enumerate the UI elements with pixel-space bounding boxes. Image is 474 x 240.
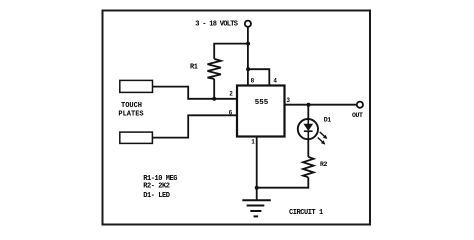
wire pin 3 to OUT — [285, 104, 360, 106]
wire pin 1 down — [256, 137, 258, 200]
LED emission arrow 2 — [318, 138, 326, 145]
touch plate (bottom) — [120, 132, 153, 143]
node junction at D1 branch — [307, 103, 311, 107]
wire D1 to R2 — [307, 139, 309, 157]
node junction pin1/R2/ground — [255, 186, 259, 190]
OUT terminal — [357, 102, 363, 108]
svg-text:R2: R2 — [320, 161, 328, 168]
wire top plate to pin 2 — [153, 87, 238, 99]
ground — [242, 200, 270, 216]
resistor R2 — [303, 157, 314, 177]
node junction at R1 branch — [246, 42, 250, 46]
wire R2 bottom to ground net — [257, 177, 309, 187]
svg-text:555: 555 — [255, 99, 269, 107]
svg-text:D1: D1 — [324, 117, 332, 124]
resistor R1 — [208, 59, 221, 79]
svg-text:D1- LED: D1- LED — [143, 192, 170, 200]
wire branch to R1 top — [214, 44, 248, 59]
svg-text:PLATES: PLATES — [118, 110, 143, 118]
LED emission arrow 1 — [320, 132, 328, 139]
svg-text:OUT: OUT — [352, 112, 363, 119]
node junction R1/pin2 — [212, 97, 216, 101]
touch plate (top) — [120, 80, 153, 92]
svg-text:CIRCUIT 1: CIRCUIT 1 — [289, 209, 323, 217]
svg-text:3 - 18 VOLTS: 3 - 18 VOLTS — [195, 21, 238, 29]
diode D1 LED — [298, 119, 318, 139]
svg-text:R1: R1 — [190, 64, 198, 72]
wire R1 bottom to pin2 net — [213, 79, 215, 99]
schematic border frame (decorative) — [103, 11, 371, 225]
wire OUT net down to D1 — [307, 105, 309, 119]
wire bottom plate to pin 6 — [153, 115, 238, 137]
wire branch to pin 4 — [248, 69, 269, 85]
op IC 555 U1 — [237, 86, 285, 137]
wire V+ down to pin 8 — [247, 27, 249, 86]
power terminal V+ — [245, 21, 251, 27]
svg-text:R1-10 MEG: R1-10 MEG — [143, 175, 177, 183]
node junction at pin4 branch — [246, 67, 250, 71]
svg-text:R2- 2K2: R2- 2K2 — [143, 183, 170, 191]
svg-text:TOUCH: TOUCH — [121, 102, 142, 110]
